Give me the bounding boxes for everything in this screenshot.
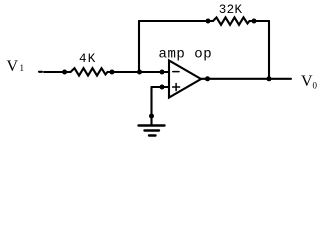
svg-text:0: 0 — [313, 81, 318, 91]
junction dot A — [62, 70, 67, 75]
wire resistor to op-amp minus input — [108, 71, 170, 73]
op-amp minus pin label — [173, 71, 179, 73]
junction dot op-amp output — [205, 76, 210, 81]
junction dot feedback takeoff — [137, 70, 142, 75]
node V1 input tick — [39, 71, 42, 73]
ground symbol — [139, 124, 165, 126]
svg-text:4K: 4K — [79, 52, 97, 66]
wire feedback top right — [250, 20, 270, 22]
svg-text:1: 1 — [20, 63, 25, 73]
wire feedback vertical right — [268, 21, 270, 79]
junction dot ground wire — [149, 114, 154, 119]
op-amp U1 triangle — [169, 61, 201, 98]
junction dot 32K right — [252, 19, 257, 24]
junction dot output node — [267, 76, 272, 81]
wire op-amp output to V0 — [201, 78, 291, 80]
wire feedback vertical left — [138, 21, 140, 72]
wire feedback top left — [139, 20, 213, 22]
svg-text:amp op: amp op — [159, 47, 213, 63]
op-amp plus pin label — [173, 86, 180, 88]
wire plus input vertical to ground — [150, 87, 152, 125]
junction dot minus input — [160, 70, 165, 75]
svg-text:V: V — [7, 58, 19, 75]
junction dot plus input — [160, 85, 165, 90]
junction dot B — [110, 70, 115, 75]
resistor R2 32K zigzag — [213, 17, 250, 24]
svg-text:V: V — [301, 73, 313, 90]
wire plus input horizontal — [152, 86, 170, 88]
resistor R1 4K zigzag — [71, 68, 108, 75]
svg-text:32K: 32K — [219, 3, 243, 17]
wire input to resistor R1 — [44, 71, 71, 73]
junction dot 32K left — [206, 19, 211, 24]
